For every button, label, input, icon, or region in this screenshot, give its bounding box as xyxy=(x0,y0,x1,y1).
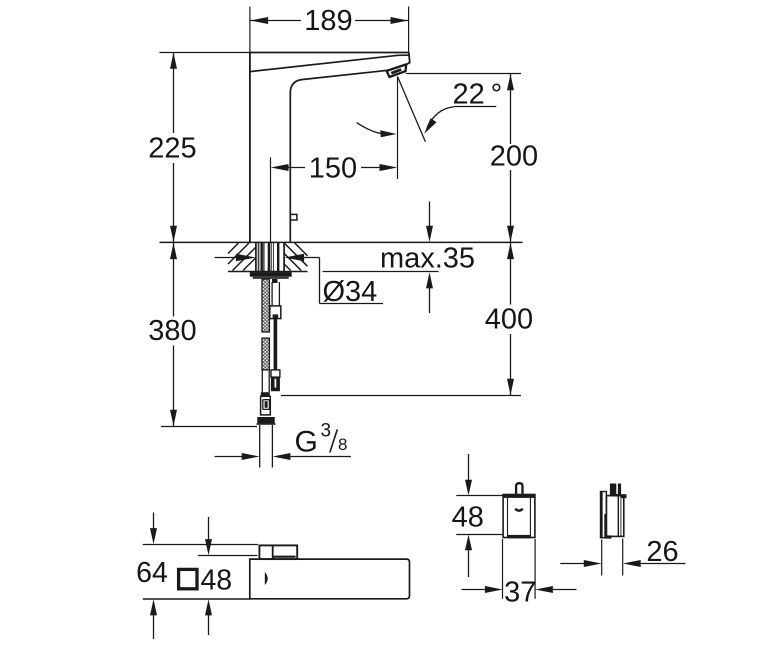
dimension max.35 xyxy=(323,202,476,314)
dimension 64 xyxy=(136,513,168,640)
threaded shank through deck xyxy=(256,243,284,271)
svg-text:G: G xyxy=(295,426,318,459)
sensor tab on faucet body xyxy=(290,214,297,220)
dimension G 3/8 xyxy=(215,421,352,461)
svg-text:37: 37 xyxy=(504,576,536,608)
svg-text:400: 400 xyxy=(485,304,533,336)
dimension 26 xyxy=(560,536,685,576)
svg-text:8: 8 xyxy=(338,435,347,454)
svg-text:380: 380 xyxy=(148,315,196,347)
svg-text:64: 64 xyxy=(136,557,168,589)
pull rod assembly xyxy=(270,279,281,391)
wire top reference line 225 xyxy=(160,52,251,54)
svg-text:3: 3 xyxy=(321,421,332,442)
svg-text:48: 48 xyxy=(200,564,232,596)
svg-text:189: 189 xyxy=(304,5,352,37)
svg-text:150: 150 xyxy=(309,153,357,185)
hose end fitting xyxy=(261,392,271,415)
top view: dimension reference lines xyxy=(143,545,258,600)
dimension 380 xyxy=(148,243,257,427)
deck / countertop section xyxy=(160,242,523,271)
svg-text:22 °: 22 ° xyxy=(453,79,503,111)
control box side view xyxy=(601,484,627,539)
svg-text:48: 48 xyxy=(452,502,484,534)
svg-text:225: 225 xyxy=(148,133,196,165)
dimension 37 xyxy=(462,539,577,608)
top view: faucet body xyxy=(250,559,410,599)
dimension 200 xyxy=(406,74,538,243)
control box front view xyxy=(456,483,535,538)
svg-text:max.35: max.35 xyxy=(380,243,475,275)
faucet body outline xyxy=(249,53,410,243)
svg-text:200: 200 xyxy=(490,141,538,173)
dimension 150 xyxy=(271,76,398,242)
top view: base plate xyxy=(259,545,297,559)
dimension 189 xyxy=(250,5,409,53)
dimension Ø34 leader and arrows xyxy=(215,254,383,308)
square symbol and dimension 48 (top view) xyxy=(179,517,233,635)
dimension 48 (control box) xyxy=(452,454,484,577)
dimension 225 xyxy=(148,53,196,243)
braided supply hose xyxy=(262,279,269,392)
svg-text:Ø34: Ø34 xyxy=(323,276,378,308)
mounting nut under deck xyxy=(250,272,292,279)
angle 22 degrees xyxy=(357,77,503,142)
dimension 400 xyxy=(281,243,533,396)
faucet outlet aerator xyxy=(387,64,407,77)
svg-text:26: 26 xyxy=(646,536,678,568)
connection pipe xyxy=(260,425,273,468)
G3/8 connection nut xyxy=(256,417,275,425)
